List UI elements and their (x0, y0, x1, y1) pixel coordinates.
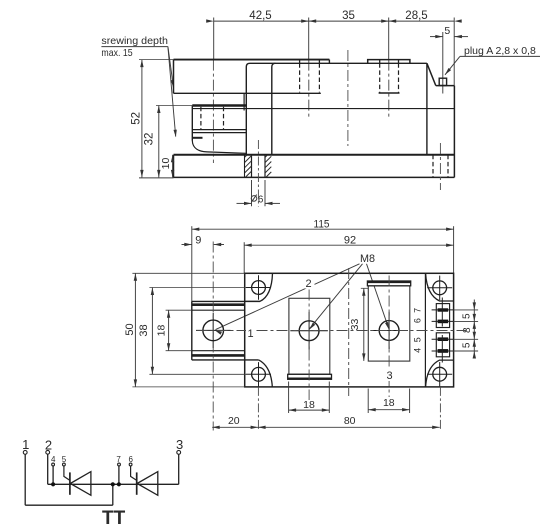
svg-text:2: 2 (305, 278, 311, 290)
svg-text:28,5: 28,5 (405, 10, 427, 22)
svg-text:80: 80 (344, 415, 356, 427)
svg-text:115: 115 (314, 218, 330, 230)
svg-text:plug A 2,8 x 0,8: plug A 2,8 x 0,8 (464, 45, 536, 57)
svg-text:4: 4 (51, 455, 56, 464)
svg-text:7: 7 (412, 308, 422, 313)
svg-text:M8: M8 (360, 253, 375, 265)
svg-text:18: 18 (155, 325, 167, 337)
svg-text:18: 18 (383, 397, 395, 409)
svg-text:4: 4 (412, 348, 422, 353)
svg-text:38: 38 (138, 324, 150, 336)
svg-text:max. 15: max. 15 (101, 48, 132, 59)
svg-text:1: 1 (247, 328, 253, 340)
svg-text:6: 6 (128, 455, 133, 464)
svg-text:42,5: 42,5 (249, 10, 271, 22)
svg-text:6: 6 (258, 195, 264, 206)
svg-text:32: 32 (144, 133, 156, 146)
svg-text:6: 6 (412, 318, 422, 323)
svg-text:srewing depth: srewing depth (101, 36, 167, 47)
svg-text:1: 1 (22, 437, 29, 452)
svg-text:5: 5 (62, 455, 67, 464)
svg-text:35: 35 (342, 10, 355, 22)
svg-text:5: 5 (444, 25, 450, 37)
svg-text:18: 18 (303, 399, 315, 411)
svg-text:50: 50 (124, 323, 136, 335)
svg-text:5: 5 (412, 337, 422, 342)
svg-text:2: 2 (45, 437, 52, 452)
svg-text:7: 7 (116, 455, 121, 464)
svg-text:5: 5 (462, 342, 473, 348)
svg-text:52: 52 (131, 112, 143, 125)
svg-text:9: 9 (195, 234, 201, 246)
svg-text:3: 3 (386, 370, 392, 382)
svg-text:20: 20 (228, 415, 240, 427)
svg-text:8: 8 (462, 327, 473, 333)
svg-text:TT: TT (102, 508, 126, 527)
svg-text:10: 10 (160, 158, 172, 170)
svg-text:3: 3 (176, 437, 183, 452)
svg-text:5: 5 (462, 313, 473, 319)
svg-text:33: 33 (349, 319, 361, 331)
svg-text:92: 92 (344, 235, 356, 247)
